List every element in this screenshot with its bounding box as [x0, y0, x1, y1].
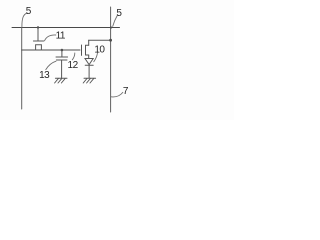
transistor Q10: drain lead up: [88, 40, 90, 45]
leader line for label 5 (right): [113, 16, 118, 27]
diode D (EL element): triangle: [85, 59, 93, 65]
wire: left signal line (vertical): [21, 28, 23, 110]
diode: cathode bar: [85, 64, 93, 66]
node: junction of bus and right signal line: [110, 26, 112, 28]
node: junction dot bus / Q11 gate line: [37, 26, 39, 28]
svg-text:5: 5: [26, 6, 32, 17]
transistor Q10 (driving TFT): gate bar (vertical): [81, 45, 83, 55]
leader line for label 11: [45, 35, 56, 41]
leader line for label 12: [72, 53, 75, 60]
transistor Q11 (switching TFT): gate line: [37, 28, 39, 41]
svg-text:12: 12: [68, 60, 79, 71]
leader line for label 5 (left): [22, 13, 27, 27]
leader line for label 7: [111, 92, 123, 97]
ground (left): bar: [55, 77, 67, 79]
capacitor: top plate: [56, 56, 68, 58]
wire: drain wire to right signal line: [89, 39, 111, 41]
transistor Q11: gate bar: [33, 40, 43, 42]
transistor Q10: channel bar with legs: [86, 45, 89, 55]
svg-text:13: 13: [39, 70, 50, 81]
capacitor: bottom lead: [61, 60, 63, 78]
diode: cathode lead: [88, 65, 90, 78]
capacitor C12: top lead: [61, 50, 63, 57]
ground (right): bar: [84, 77, 96, 79]
node: junction dot drain wire / right signal line: [109, 39, 112, 42]
svg-text:5: 5: [116, 8, 122, 19]
ground (right): hatch strokes: [83, 78, 94, 83]
transistor Q10: source lead down: [88, 55, 90, 59]
transistor Q11: channel with source/drain legs: [36, 45, 42, 50]
svg-text:7: 7: [123, 86, 129, 97]
node: junction dot row wire / capacitor: [61, 49, 64, 52]
leader line for label 13: [46, 61, 56, 69]
svg-text:11: 11: [56, 30, 66, 41]
wire: scan line 5 (top horizontal bus): [12, 27, 120, 29]
ground (left): hatch strokes: [55, 78, 66, 83]
wire: pixel row wire (horizontal, Q11 source-drain row): [22, 49, 80, 51]
capacitor: bottom plate: [56, 59, 67, 61]
wire: right signal line 7 (vertical): [110, 7, 112, 112]
svg-text:10: 10: [94, 45, 105, 56]
leader line for label 10: [94, 52, 98, 62]
